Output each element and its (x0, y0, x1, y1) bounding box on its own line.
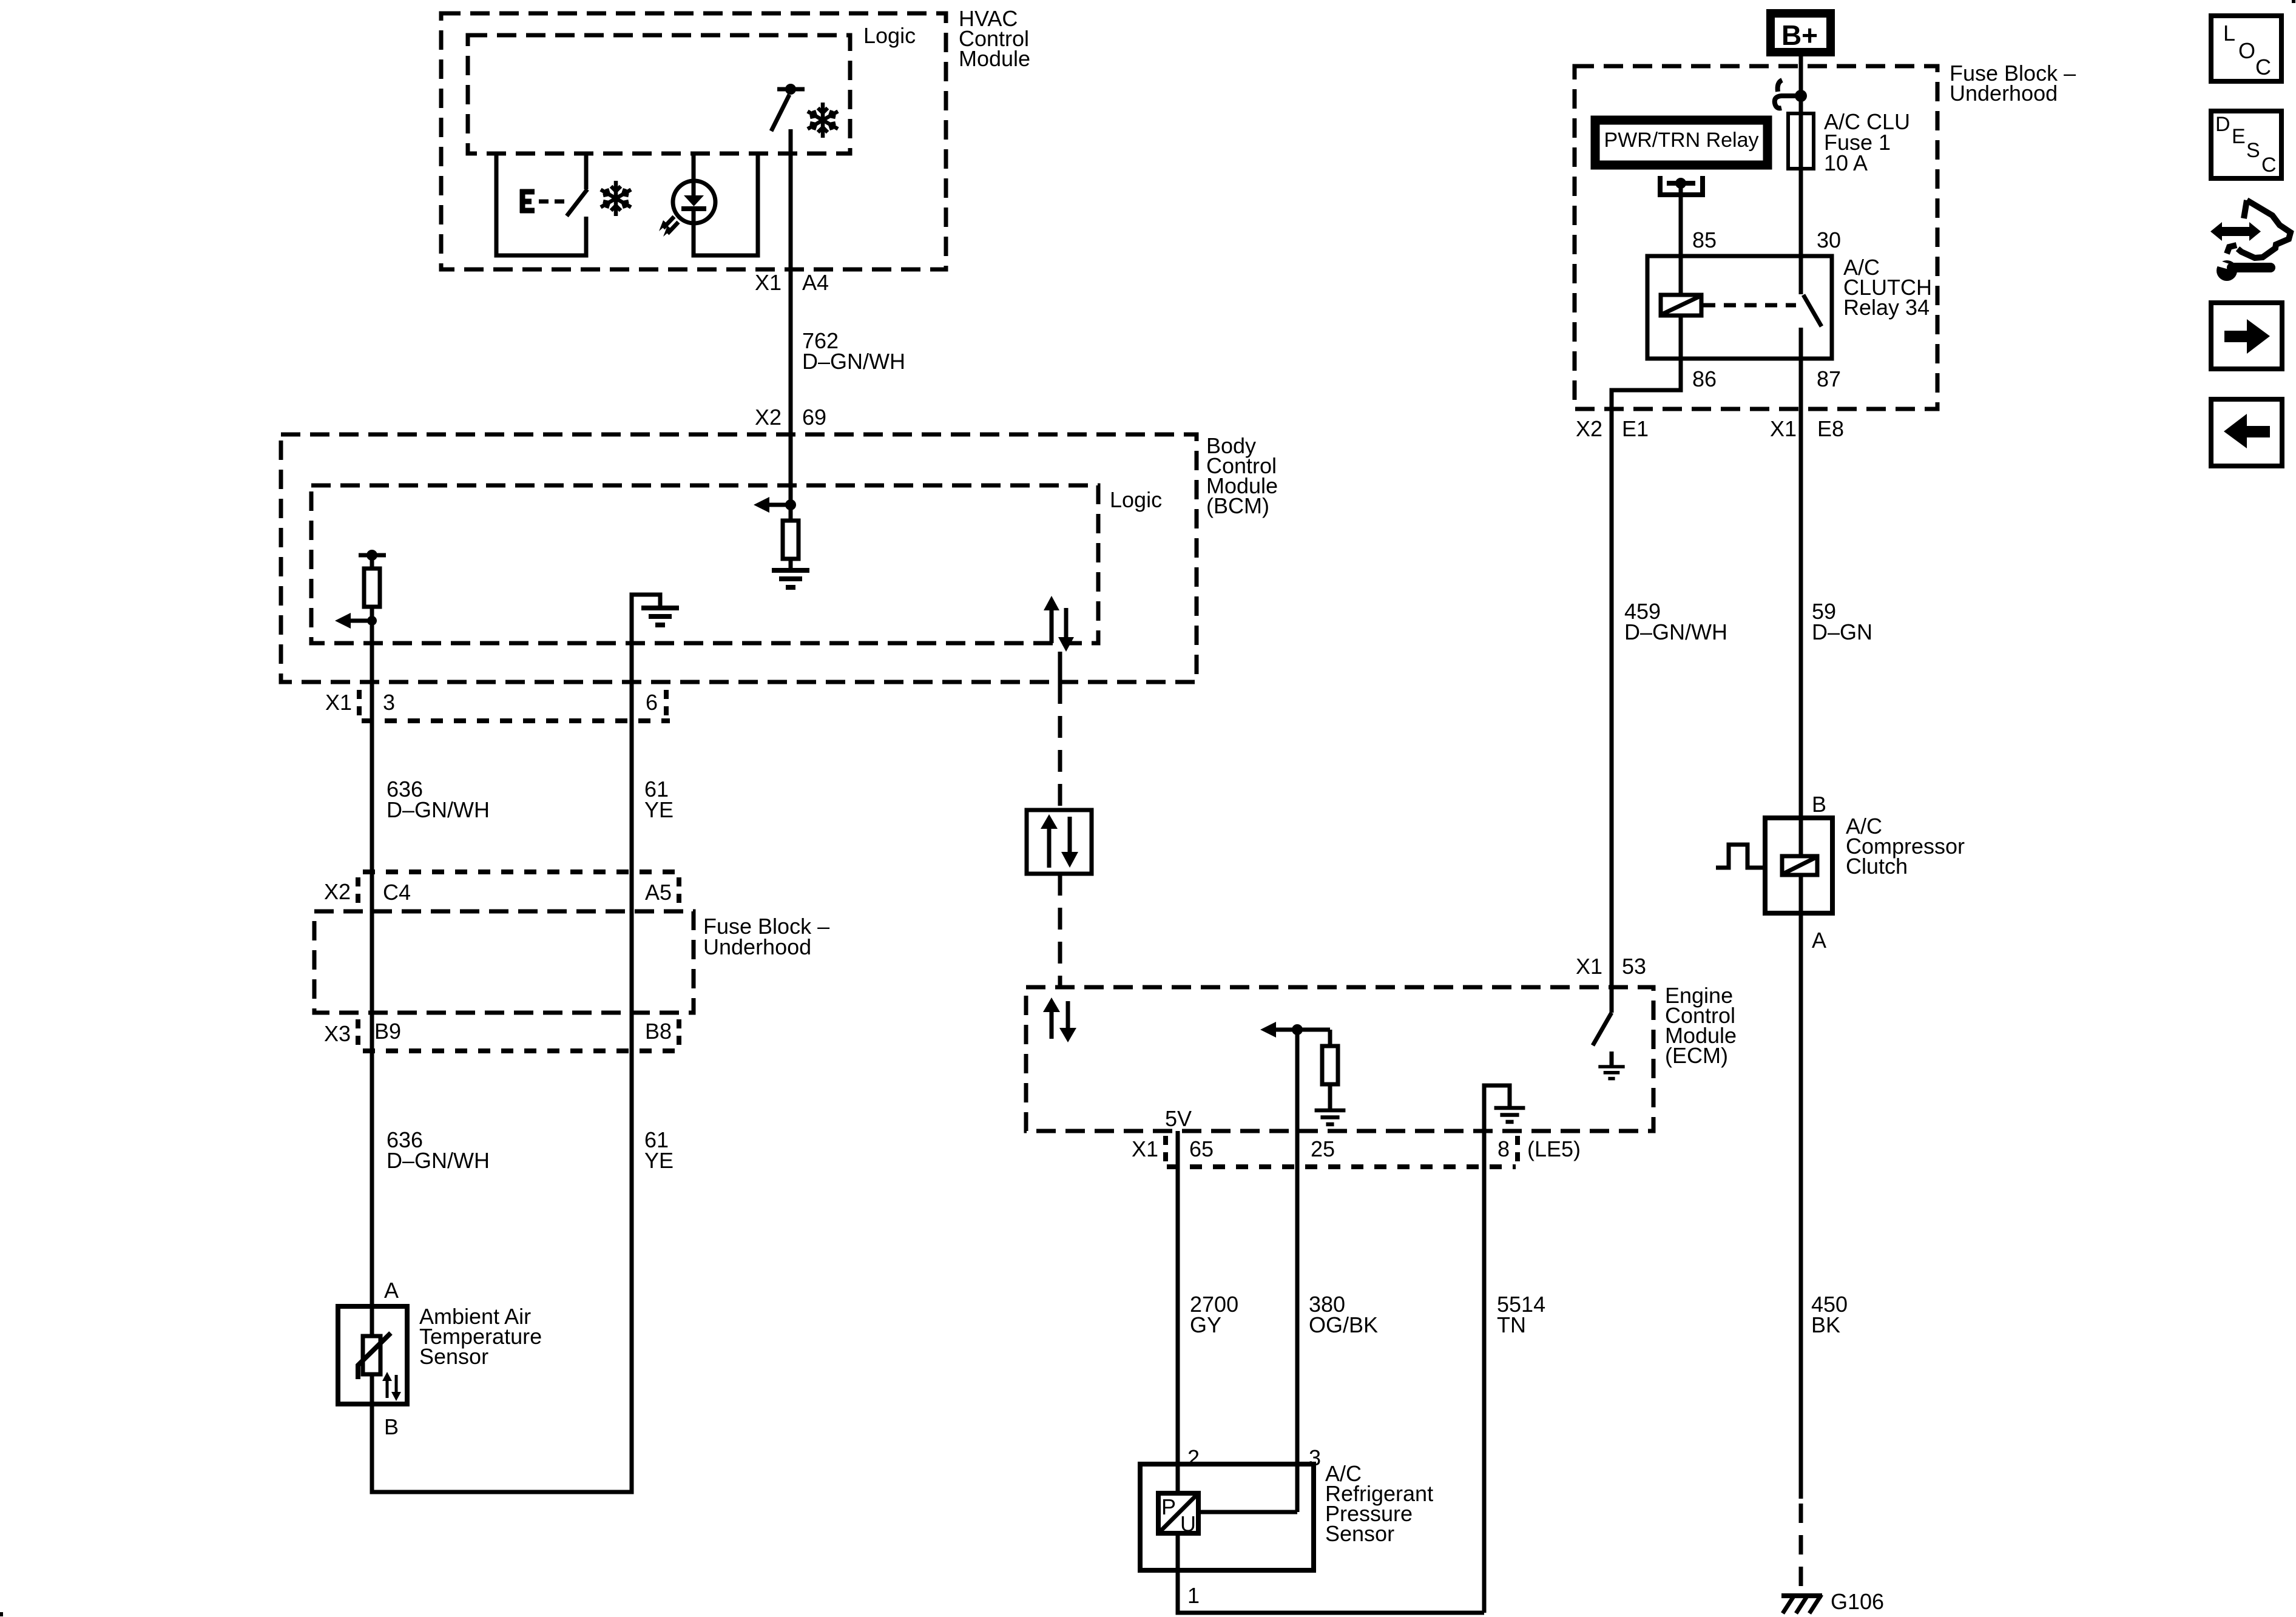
svg-text:X2: X2 (1576, 416, 1602, 441)
svg-text:G106: G106 (1831, 1589, 1884, 1614)
wire relay 87 to clutch B (59 D-GN) (1799, 359, 1803, 856)
svg-text:Sensor: Sensor (1325, 1521, 1394, 1546)
Fuse Block - Underhood (right) box (1575, 66, 1937, 409)
svg-text:D–GN/WH: D–GN/WH (387, 797, 490, 822)
ground G106 (1781, 1595, 1822, 1613)
svg-text:D–GN/WH: D–GN/WH (387, 1148, 490, 1173)
svg-text:E: E (2232, 125, 2246, 148)
svg-text:6: 6 (646, 690, 658, 715)
svg-text:53: 53 (1622, 954, 1646, 979)
BCM pull-up resistor on A/C request line (754, 497, 799, 570)
svg-text:X1: X1 (325, 690, 352, 715)
svg-text:U: U (1180, 1511, 1196, 1536)
ground (ECM internal, driver) (1598, 1067, 1624, 1079)
svg-text:8: 8 (1497, 1136, 1510, 1161)
svg-text:O: O (2238, 38, 2255, 63)
svg-text:P: P (1161, 1494, 1176, 1519)
svg-text:(LE5): (LE5) (1527, 1136, 1581, 1161)
ECM serial data arrows (1043, 998, 1076, 1042)
svg-text:OG/BK: OG/BK (1309, 1312, 1378, 1337)
connector X2 pins C4 / A5 (fuse block) (324, 872, 681, 905)
svg-text:85: 85 (1692, 228, 1717, 252)
serial data wire (dashed) gateway to ECM (1058, 874, 1062, 987)
svg-text:5V: 5V (1165, 1106, 1192, 1131)
svg-text:BK: BK (1811, 1312, 1840, 1337)
svg-text:YE: YE (644, 797, 674, 822)
svg-text:TN: TN (1497, 1312, 1526, 1337)
BCM Logic box (311, 485, 1098, 643)
LOC icon (2211, 16, 2281, 81)
svg-text:(BCM): (BCM) (1206, 493, 1269, 518)
svg-text:A5: A5 (645, 880, 672, 905)
A/C Compressor Clutch (1716, 818, 1832, 913)
svg-text:C: C (2255, 55, 2271, 79)
ECM A/C relay control switch (1593, 987, 1612, 1067)
wire 762 from switch down to BCM (789, 129, 793, 505)
Ambient Air Temperature Sensor (338, 1306, 407, 1404)
svg-text:X2: X2 (324, 879, 351, 904)
svg-text:E1: E1 (1622, 416, 1649, 441)
svg-text:D: D (2215, 113, 2230, 136)
svg-text:B8: B8 (645, 1019, 672, 1044)
wire 636 (BCM pin 3 to sensor A) (370, 621, 374, 1306)
svg-text:X1: X1 (755, 270, 782, 295)
HVAC Logic box (468, 35, 850, 154)
svg-text:PWR/TRN Relay: PWR/TRN Relay (1604, 129, 1758, 152)
serial data wire (dashed) BCM to gateway (1058, 682, 1062, 810)
wire 2700 GY (pin 65 to sensor 2) (1176, 1131, 1180, 1493)
ECM pin row X1: 65 25 8 (LE5) (1132, 1136, 1581, 1167)
svg-text:25: 25 (1311, 1136, 1335, 1161)
ECM pressure signal arrow and pull resistor (1260, 1022, 1338, 1110)
svg-text:(ECM): (ECM) (1665, 1043, 1728, 1068)
BCM box (281, 434, 1197, 682)
ECM ground hook (pin 8) (1484, 1085, 1510, 1131)
svg-text:Logic: Logic (863, 23, 916, 48)
svg-text:65: 65 (1189, 1136, 1214, 1161)
svg-text:X3: X3 (324, 1021, 351, 1046)
wire sensor 1 loop to 5514 TN (1178, 1535, 1484, 1613)
ground (BCM internal, A/C request) (772, 570, 809, 587)
svg-text:B+: B+ (1781, 19, 1818, 51)
svg-text:69: 69 (802, 405, 826, 430)
ECM box (1026, 987, 1653, 1131)
in-line connector on B+ feed (1775, 80, 1807, 108)
svg-text:87: 87 (1817, 366, 1841, 391)
svg-text:B9: B9 (374, 1019, 401, 1044)
snowflake (A/C) (808, 103, 838, 138)
svg-text:B: B (384, 1414, 399, 1439)
svg-text:D–GN: D–GN (1812, 619, 1872, 644)
Fuse Block - Underhood (left) box (314, 911, 694, 1013)
A/C CLUTCH Relay 34 (1647, 256, 1832, 359)
A/C indicator LED (HVAC) (659, 154, 758, 255)
DESC icon (2211, 111, 2281, 178)
svg-text:S: S (2246, 139, 2260, 162)
snowflake (switch) (601, 181, 631, 216)
svg-text:GY: GY (1190, 1312, 1221, 1337)
wire 450 BK clutch A to ground (1799, 913, 1803, 1499)
svg-text:A: A (384, 1278, 399, 1303)
connector X1 pins 3 and 6 (BCM) (325, 690, 670, 721)
svg-text:Clutch: Clutch (1846, 854, 1908, 879)
svg-text:C4: C4 (383, 880, 411, 905)
svg-text:A4: A4 (802, 270, 829, 295)
in-line socket from PWR/TRN relay (1658, 176, 1705, 197)
svg-text:Sensor: Sensor (419, 1344, 488, 1369)
wire 5514 TN (pin 8 to sensor 1) (1482, 1131, 1487, 1613)
BCM internal ground hook (pin 6 return) (632, 595, 660, 698)
svg-text:Module: Module (959, 46, 1030, 71)
svg-text:L: L (2223, 21, 2235, 46)
wire relay 86 to ECM X1-53 (459 D-GN/WH) (1612, 359, 1681, 1013)
svg-text:A: A (1812, 928, 1826, 953)
A/C Refrigerant Pressure Sensor (1140, 1464, 1314, 1570)
BCM serial data arrows (1044, 596, 1074, 682)
HVAC Control Module box (441, 13, 946, 269)
svg-text:D–GN/WH: D–GN/WH (802, 349, 905, 374)
svg-text:Logic: Logic (1110, 487, 1162, 512)
ground (ECM internal, pin 8) (1494, 1108, 1525, 1122)
svg-text:10 A: 10 A (1824, 150, 1868, 175)
back arrow icon (2211, 399, 2282, 466)
fuse A/C CLU Fuse 1 10 A (1788, 113, 1814, 169)
svg-text:Relay 34: Relay 34 (1843, 295, 1930, 320)
svg-text:Underhood: Underhood (703, 934, 811, 959)
svg-text:X1: X1 (1576, 954, 1602, 979)
svg-text:1: 1 (1187, 1583, 1200, 1608)
svg-text:3: 3 (383, 690, 395, 715)
wire 380 OG/BK (pin 25 to sensor 3) (1295, 1030, 1300, 1512)
ground (ECM internal, signal) (1315, 1110, 1346, 1124)
svg-text:X1: X1 (1132, 1136, 1158, 1161)
svg-text:86: 86 (1692, 366, 1717, 391)
BCM pull-up resistor on sensor input (359, 550, 386, 621)
ground (BCM internal, sensor return) (641, 608, 679, 625)
serial data gateway symbol (1027, 810, 1092, 874)
svg-text:YE: YE (644, 1148, 674, 1173)
svg-text:C: C (2261, 154, 2277, 177)
PWR/TRN Relay feed box (1595, 120, 1768, 165)
svg-text:Underhood: Underhood (1950, 81, 2058, 106)
forward arrow icon (2211, 303, 2282, 369)
wire sensor B loop to 61 YE (372, 595, 632, 1492)
connector X3 pins B9 / B8 (fuse block) (324, 1019, 681, 1051)
svg-text:X2: X2 (755, 405, 782, 430)
diagnostic hand/wrench icon (2210, 200, 2291, 281)
svg-text:E8: E8 (1817, 416, 1844, 441)
A/C request switch (HVAC logic) (771, 84, 805, 131)
node B+ (1771, 13, 1831, 52)
wire B+ to fuse and relay pin 30 (1799, 56, 1803, 256)
BCM signal arrow (sensor input) (335, 613, 377, 629)
page artifact marks (2292, 0, 2295, 3)
svg-text:X1: X1 (1770, 416, 1797, 441)
A/C on-off switch with E (HVAC front control) (496, 154, 587, 255)
svg-text:30: 30 (1817, 228, 1841, 252)
svg-text:D–GN/WH: D–GN/WH (1624, 619, 1727, 644)
wire socket to relay pin 85 (1679, 183, 1683, 295)
svg-text:B: B (1812, 792, 1826, 817)
